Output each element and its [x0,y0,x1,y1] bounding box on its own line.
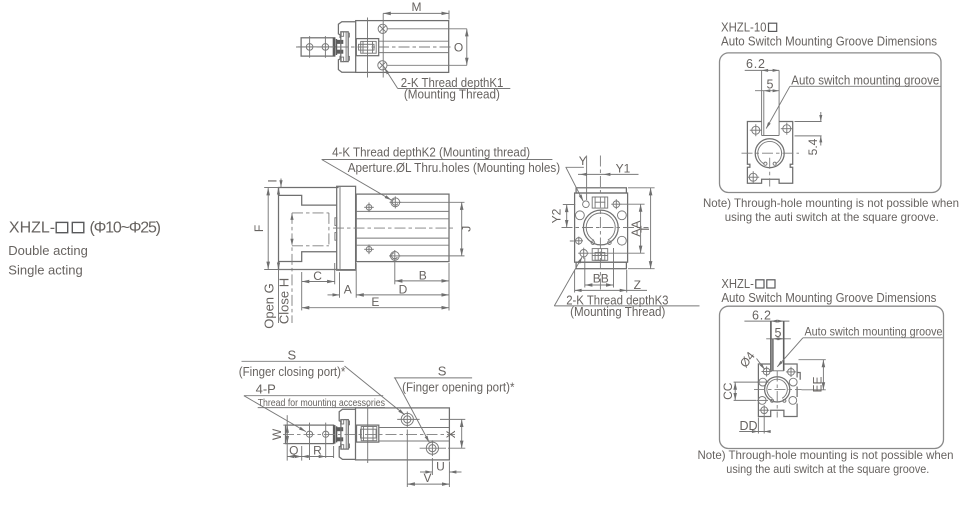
centerline [333,227,456,229]
rod lines [379,427,450,429]
Z dimension [574,270,576,293]
svg-text:V: V [423,471,431,485]
leader 4-P [244,396,306,432]
leader to thru hole [322,160,392,201]
block screw right [323,431,329,437]
svg-text:U: U [436,459,445,473]
leader [766,86,790,128]
svg-text:Auto switch mounting groove: Auto switch mounting groove [805,325,943,339]
clamp screw top [337,40,343,44]
svg-text:S: S [288,348,297,363]
svg-text:Open G: Open G [262,283,277,329]
svg-text:J: J [459,226,473,232]
body outline [758,364,797,417]
finger centerline [298,46,337,48]
centerline [283,433,455,435]
svg-text:Q: Q [289,444,298,458]
svg-text:4-K Thread depthK2 (Mounting t: 4-K Thread depthK2 (Mounting thread) [332,145,530,160]
B dimension [394,262,396,284]
thru hole top [391,198,400,207]
mounting thread top [378,24,387,33]
clamp screw top [337,427,343,431]
5.4 dimension [795,121,822,123]
centerlines [754,388,802,390]
leader 2-K K3 [554,257,582,306]
svg-text:Y: Y [579,154,587,168]
U dimension [431,458,433,475]
Q R dimensions [301,446,303,461]
clamp screw bottom [337,437,343,441]
guide circle RB [789,397,797,405]
clamp dark bar [333,425,336,444]
D dimension [355,263,357,298]
Y1 dimension [586,156,588,201]
leader [777,338,803,367]
groove walls [761,70,763,135]
CC dimension [734,381,758,383]
finger left edge [278,188,280,270]
clamp screw bottom [337,50,343,54]
rod lines [379,40,449,42]
svg-text:(Φ10~Φ25): (Φ10~Φ25) [90,219,162,236]
svg-text:BB: BB [593,272,609,286]
mounting screw centerline [382,13,384,77]
svg-text:XHZL-: XHZL- [721,277,754,291]
svg-text:DD: DD [740,419,758,433]
port opening [426,442,438,454]
centerlines [742,152,800,154]
jaw plate [341,32,348,62]
body [356,194,449,262]
svg-text:Auto Switch Mounting Groove Di: Auto Switch Mounting Groove Dimensions [721,291,936,305]
svg-text:W: W [270,428,284,440]
svg-text:(Mounting Thread): (Mounting Thread) [404,87,500,102]
close H phantom line [291,213,293,323]
X dimension [440,418,465,420]
M dimension [383,12,449,14]
svg-text:(Finger closing port)*: (Finger closing port)* [239,364,346,379]
bore outer [583,210,618,245]
screw TR [788,369,795,376]
svg-text:Single acting: Single acting [8,262,82,277]
screw extension lines to O dim [387,28,467,30]
svg-text:using the auti switch at the s: using the auti switch at the square groo… [725,210,939,224]
guide lines [356,210,449,212]
mounting thread bottom [378,61,387,70]
W dimension [283,424,290,426]
ring hole left [591,241,595,245]
body outline [747,122,792,184]
panel box [720,306,944,448]
screw TL [763,368,770,375]
top finger [279,188,339,206]
I dimension [280,179,282,188]
svg-text:6.2: 6.2 [752,308,771,322]
bore [765,377,790,402]
leader S opening [395,378,429,443]
C dimension [301,272,303,310]
top-right step [797,373,800,380]
small crossed hole left bottom [576,238,582,244]
corner screw TL [583,201,590,208]
arrows closed span [290,213,293,220]
svg-text:using the auti switch at the s: using the auti switch at the square groo… [726,462,929,476]
svg-text:Thread for mounting accessorie: Thread for mounting accessories [258,397,385,409]
svg-text:Close H: Close H [277,278,292,324]
svg-text:Note) Through-hole mounting is: Note) Through-hole mounting is not possi… [703,196,959,210]
svg-text:T: T [638,225,652,233]
guide circle left top [576,211,585,220]
AA dimension [621,203,645,205]
guide circle RT [789,378,797,386]
screw TL [752,126,760,134]
guide circle right top [618,211,627,220]
svg-text:Double acting: Double acting [8,243,88,258]
svg-text:M: M [412,0,422,14]
top plate [576,188,626,193]
svg-text:6.2: 6.2 [746,57,765,71]
svg-text:O: O [454,40,463,54]
E dimension [448,263,450,311]
main body [575,193,628,262]
horizontal centerline [562,227,649,229]
svg-text:4-P: 4-P [256,381,276,396]
corner screw TR [613,201,620,208]
block screw left [306,431,312,437]
bottom sensor groove block [592,249,608,261]
svg-text:Y2: Y2 [550,208,564,223]
leader d4 [757,359,765,370]
screw BL [749,173,757,181]
screw BL [761,407,768,414]
finger block [286,425,334,444]
svg-text:XHZL-10: XHZL-10 [721,21,767,35]
body [356,408,450,460]
jaw plate [341,420,348,450]
svg-text:D: D [399,282,408,296]
svg-text:Y1: Y1 [616,161,631,175]
svg-text:Note) Through-hole mounting is: Note) Through-hole mounting is not possi… [698,448,954,462]
J dimension [400,201,465,203]
bottom finger [279,252,339,270]
svg-text:A: A [344,282,352,296]
DD dimension [757,418,759,434]
svg-text:E: E [371,295,379,309]
svg-text:Auto switch mounting groove: Auto switch mounting groove [791,72,939,87]
port closing [401,413,413,425]
svg-text:F: F [252,225,266,232]
piston nut [356,39,378,56]
svg-text:EE: EE [810,376,824,392]
cap outline [338,22,355,72]
leader 2-K K1 [385,68,398,89]
svg-text:Z: Z [634,278,641,292]
ring hole right [608,241,612,245]
jaw plate [337,186,356,270]
finger screw right [322,44,329,51]
svg-text:Aperture.ØL Thru.holes (Mounti: Aperture.ØL Thru.holes (Mounting holes) [348,160,561,175]
svg-text:(Finger opening port)*: (Finger opening port)* [402,380,514,395]
EE dimension [799,359,826,361]
phantom closed position [292,213,329,246]
open G line [278,270,280,324]
F dimension [264,187,280,189]
O dimension [466,29,468,66]
groove walls [770,321,772,371]
top sensor groove block [592,197,608,208]
svg-text:I: I [266,179,280,182]
svg-text:XHZL-: XHZL- [9,219,55,236]
T dimension [628,187,655,189]
thread screw BL [580,250,587,257]
main centerline [296,46,453,48]
body outline [356,21,449,73]
A dimension [339,272,341,298]
guide circle right bottom [618,236,627,245]
finger screw left [306,44,313,51]
guide circle LT [759,378,767,386]
4-K thread bottom [366,247,372,253]
svg-text:S: S [438,363,447,378]
bottom plate [576,262,626,269]
arrows open span [277,188,280,195]
BB dimension [584,258,586,288]
svg-text:5.4: 5.4 [806,138,820,155]
section line [367,405,369,464]
Y2 dimension [563,204,575,206]
svg-text:R: R [313,444,322,458]
vertical centerline [599,156,601,292]
leader S closing [345,366,405,415]
bore [755,139,784,168]
screw TR [783,125,791,133]
clamp dark bar [333,38,336,56]
4-K thread top [366,205,372,211]
bore snap ring [586,213,615,240]
svg-text:(Mounting Thread): (Mounting Thread) [570,304,665,319]
cap outline [339,409,355,459]
svg-text:X: X [444,430,458,438]
svg-text:Auto Switch Mounting Groove Di: Auto Switch Mounting Groove Dimensions [721,34,937,48]
thru hole bottom [390,252,399,261]
guide circle LB [758,397,766,405]
section line 1 [367,18,369,78]
svg-text:C: C [313,269,322,283]
panel box [720,53,942,193]
svg-text:CC: CC [721,382,735,400]
piston nut [357,425,379,442]
finger block [301,38,335,56]
V dimension [406,430,408,488]
svg-text:B: B [419,268,427,282]
